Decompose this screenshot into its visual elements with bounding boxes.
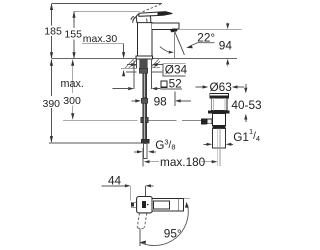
top view spout inner: [154, 201, 170, 209]
svg-text:52: 52: [169, 77, 182, 91]
threaded shank: [140, 59, 147, 69]
popup thread section: [213, 128, 226, 148]
95 ext line: [139, 229, 141, 247]
popup body lower: [213, 114, 226, 126]
svg-text:300: 300: [63, 95, 81, 107]
svg-text:max.: max.: [61, 78, 84, 90]
max.300 bottom reference line: [63, 119, 138, 121]
svg-text:max.30: max.30: [83, 33, 118, 45]
44 ext lines: [130, 186, 132, 200]
spout section: [152, 23, 179, 29]
svg-text:95°: 95°: [164, 226, 182, 240]
popup lower band: [213, 126, 226, 129]
max180 left ext: [142, 148, 144, 167]
square symbol: [161, 81, 167, 87]
dim line 185: [50, 4, 53, 59]
popup rod line: [149, 120, 177, 122]
popup knob: [201, 118, 207, 124]
O34 label box: [163, 64, 186, 76]
hatch left: [125, 59, 137, 68]
dim 185 extension line top: [52, 3, 163, 5]
hose lower: [143, 103, 147, 139]
hose end nut: [141, 139, 149, 143]
lever rect top ext: [184, 198, 190, 200]
dim 94: [226, 22, 229, 66]
faucet body: [138, 23, 152, 57]
svg-text:22°: 22°: [197, 31, 215, 45]
countertop underside right: [151, 67, 160, 69]
390 bottom reference line: [49, 142, 141, 144]
svg-text:390: 390: [43, 98, 61, 110]
mounting nut: [139, 68, 147, 73]
svg-text:40-53: 40-53: [231, 98, 262, 112]
svg-text:185: 185: [44, 26, 62, 38]
popup inner tube: [217, 128, 219, 166]
G3/8 thread tube: [144, 143, 148, 158]
countertop top line: [51, 58, 237, 60]
svg-text:155: 155: [64, 29, 82, 41]
rod junction fitting: [141, 117, 148, 122]
95 arc: [140, 205, 188, 246]
aerator extension line right: [179, 28, 242, 30]
lever blade: [139, 12, 172, 17]
svg-text:Ø63: Ø63: [210, 80, 233, 94]
sq52 label underline: [160, 88, 182, 90]
dim 98: [132, 99, 191, 102]
top view cartridge dark: [142, 201, 146, 208]
svg-text:44: 44: [108, 173, 122, 187]
shank ext lines y72.9: [126, 71, 137, 73]
lever raised dashed: [143, 4, 162, 12]
dim G1 1/4 arrows: [204, 143, 233, 146]
G3/8 arrows: [134, 150, 156, 153]
aerator: [170, 29, 178, 33]
cartridge housing: [136, 14, 151, 22]
dim max.180: [144, 160, 218, 163]
water stream angled 22deg: [175, 32, 185, 55]
hose upper: [143, 73, 147, 97]
dim line max.300: [71, 59, 74, 119]
dim row sq52 arrows: [113, 87, 161, 90]
stream swing arc arrow: [160, 47, 172, 53]
svg-text:max.180: max.180: [160, 155, 206, 169]
dim line 155: [72, 11, 75, 59]
top view left protrusion: [131, 202, 136, 207]
countertop underside left: [121, 67, 137, 69]
svg-text:94: 94: [219, 38, 233, 52]
top view base square: [137, 197, 153, 213]
hatch right: [152, 59, 160, 67]
water stream vertical: [173, 32, 175, 58]
max.30 arrow up to counter underside: [122, 70, 125, 77]
lever motion arcs: [133, 17, 137, 23]
extension line right x151.5: [151, 59, 153, 89]
svg-text:98: 98: [154, 94, 168, 108]
dim 155 extension line top: [74, 10, 140, 12]
hose mid nut: [141, 98, 147, 103]
countertop hole edge left: [136, 59, 138, 69]
popup body upper: [211, 98, 227, 111]
popup collar: [208, 111, 230, 114]
svg-text:Ø34: Ø34: [165, 62, 188, 76]
top view lever rect: [152, 199, 184, 211]
22deg leader: [189, 43, 215, 47]
dim O63: [196, 85, 245, 88]
popup flange: [210, 94, 229, 99]
98 ext line: [174, 92, 176, 106]
dashed handle swung: [137, 213, 147, 229]
max.30 leader arrow down to countertop: [122, 44, 125, 59]
extension line left x133.9: [133, 61, 135, 89]
lever tick: [146, 19, 148, 23]
faucet base plate: [136, 56, 152, 59]
dim row O34 arrows: [127, 63, 163, 66]
dim 40-53: [244, 84, 247, 122]
dim line 390: [50, 59, 53, 142]
